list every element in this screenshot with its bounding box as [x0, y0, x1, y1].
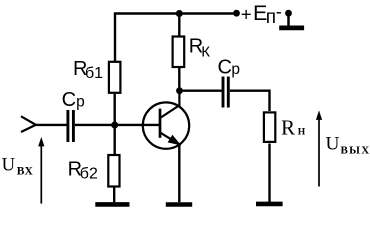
label Cp output [218, 57, 241, 79]
node junction top of Rk branch [176, 10, 183, 17]
transistor base bar [159, 109, 162, 138]
label Ep [253, 1, 276, 28]
transistor emitter arrowhead [169, 136, 179, 144]
label minus [276, 2, 282, 22]
wire collector node to output capacitor [180, 89, 222, 91]
wire Rb2 bottom to ground [113, 187, 115, 202]
wire Rk branch top [178, 14, 180, 38]
svg-text:б1: б1 [85, 65, 103, 82]
wire input to capacitor [36, 124, 67, 126]
wire top supply rail [115, 14, 237, 62]
label Rb1 [73, 58, 103, 82]
svg-text:U: U [2, 154, 16, 175]
svg-text:ВХ: ВХ [17, 166, 34, 178]
svg-text:К: К [201, 43, 210, 60]
svg-text:-: - [276, 2, 282, 22]
label Rk [189, 35, 211, 60]
svg-text:ВЫХ: ВЫХ [341, 145, 370, 157]
wire Rb1 bottom to base node to Rb2 top [113, 94, 115, 154]
wire negative terminal stem [287, 13, 290, 26]
svg-text:C: C [218, 57, 232, 79]
capacitor Cp input plates [68, 110, 74, 142]
resistor Rb2 [108, 155, 119, 187]
wire capacitor to base of transistor [75, 124, 159, 126]
svg-text:+: + [241, 3, 252, 24]
transistor VT circle [143, 102, 189, 148]
label Uvyx [326, 133, 370, 156]
resistor Rb1 [109, 62, 121, 93]
wire emitter to ground [178, 144, 180, 202]
label Rn [281, 116, 306, 140]
svg-text:р: р [76, 93, 85, 110]
arrow Uvyx [316, 110, 322, 186]
transistor collector lead [161, 91, 180, 118]
svg-text:C: C [62, 89, 76, 111]
transistor emitter lead [161, 133, 180, 145]
ground bar negative terminal [279, 26, 304, 31]
resistor Rk [173, 37, 185, 68]
input terminal chevron [21, 116, 36, 132]
wire Rn bottom to ground [268, 144, 270, 203]
svg-text:Н: Н [298, 127, 306, 138]
label plus [241, 3, 252, 24]
ground bar under Rn [256, 202, 283, 207]
wire Rk bottom to collector node [178, 68, 180, 91]
svg-text:п: п [266, 7, 276, 28]
node supply negative terminal [285, 10, 292, 17]
label Cp input [62, 89, 85, 111]
svg-text:р: р [231, 61, 240, 78]
svg-text:R: R [281, 116, 295, 140]
wire output capacitor to Rn [230, 91, 270, 111]
node supply positive terminal [233, 10, 240, 17]
label Rb2 [68, 158, 98, 182]
node base junction [111, 122, 118, 129]
label Uvx [2, 154, 34, 177]
ground bar under emitter [166, 202, 192, 207]
resistor Rn [264, 112, 275, 141]
capacitor Cp output plates [223, 77, 228, 108]
node collector junction [176, 87, 183, 94]
ground bar under Rb2 [95, 202, 129, 207]
svg-text:б2: б2 [80, 165, 98, 182]
svg-text:U: U [326, 133, 340, 154]
arrow Uvx [38, 137, 44, 204]
